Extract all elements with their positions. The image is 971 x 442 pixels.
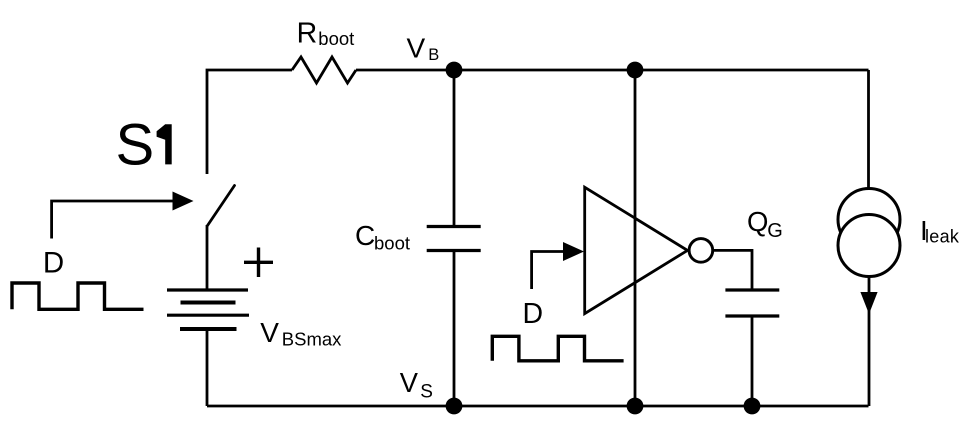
label S1 <box>116 113 172 178</box>
label QG <box>747 206 783 242</box>
svg-text:B: B <box>428 46 439 64</box>
wire switch to battery <box>206 225 209 290</box>
wire battery to bottom rail <box>206 329 209 406</box>
wire top rail to current source <box>867 70 870 189</box>
svg-text:V: V <box>260 317 279 348</box>
wire inverter output to QG capacitor <box>713 250 752 290</box>
wire current source to bottom rail with arrow <box>860 277 877 407</box>
label Ileak <box>920 215 960 247</box>
switch S1 blade <box>208 186 235 226</box>
svg-text:D: D <box>43 246 64 279</box>
svg-text:boot: boot <box>374 233 410 254</box>
label Rboot <box>297 18 355 50</box>
current source Ileak circles <box>838 189 900 277</box>
wire Cboot to bottom rail <box>453 251 456 407</box>
wire top-left corner from switch to resistor <box>207 70 292 174</box>
node dot QG bottom <box>744 398 761 415</box>
resistor Rboot zigzag <box>292 57 356 83</box>
label VS <box>400 367 433 402</box>
battery VBSmax plates <box>167 290 249 329</box>
waveform D pulse left <box>12 283 144 309</box>
svg-text:C: C <box>355 220 375 251</box>
svg-text:S: S <box>116 113 155 178</box>
svg-text:BSmax: BSmax <box>282 329 342 350</box>
plus sign of battery <box>244 248 273 278</box>
waveform D pulse middle <box>492 336 623 361</box>
wire top rail from resistor to top-right corner <box>356 69 869 72</box>
label Cboot <box>355 220 410 253</box>
node VB dot <box>446 62 463 79</box>
svg-text:Q: Q <box>747 206 768 237</box>
arrow input of inverter <box>532 242 584 289</box>
svg-text:boot: boot <box>318 28 354 49</box>
label VBSmax <box>260 317 342 350</box>
label D input of inverter <box>523 298 544 330</box>
label D control of S1 <box>43 246 64 279</box>
svg-text:S: S <box>420 381 433 402</box>
node VS dot <box>446 398 463 415</box>
inverter bubble <box>689 239 713 263</box>
op-amp driver triangle U1 <box>585 187 688 313</box>
wire middle vertical rail <box>634 70 637 406</box>
wire VB node down to Cboot <box>453 70 456 227</box>
svg-text:D: D <box>523 298 544 330</box>
capacitor Cboot <box>427 227 481 251</box>
capacitor QG <box>725 290 779 316</box>
arrow control of S1 <box>52 192 194 239</box>
svg-text:leak: leak <box>925 227 960 247</box>
label VB <box>407 33 440 64</box>
wire QG capacitor to bottom rail <box>751 316 754 406</box>
svg-text:V: V <box>407 33 426 64</box>
svg-text:R: R <box>297 18 318 50</box>
svg-text:V: V <box>400 367 419 398</box>
wire bottom rail <box>207 405 869 408</box>
node dot top middle rail <box>627 62 644 79</box>
svg-text:G: G <box>767 220 783 242</box>
node dot bottom middle rail <box>627 398 644 415</box>
